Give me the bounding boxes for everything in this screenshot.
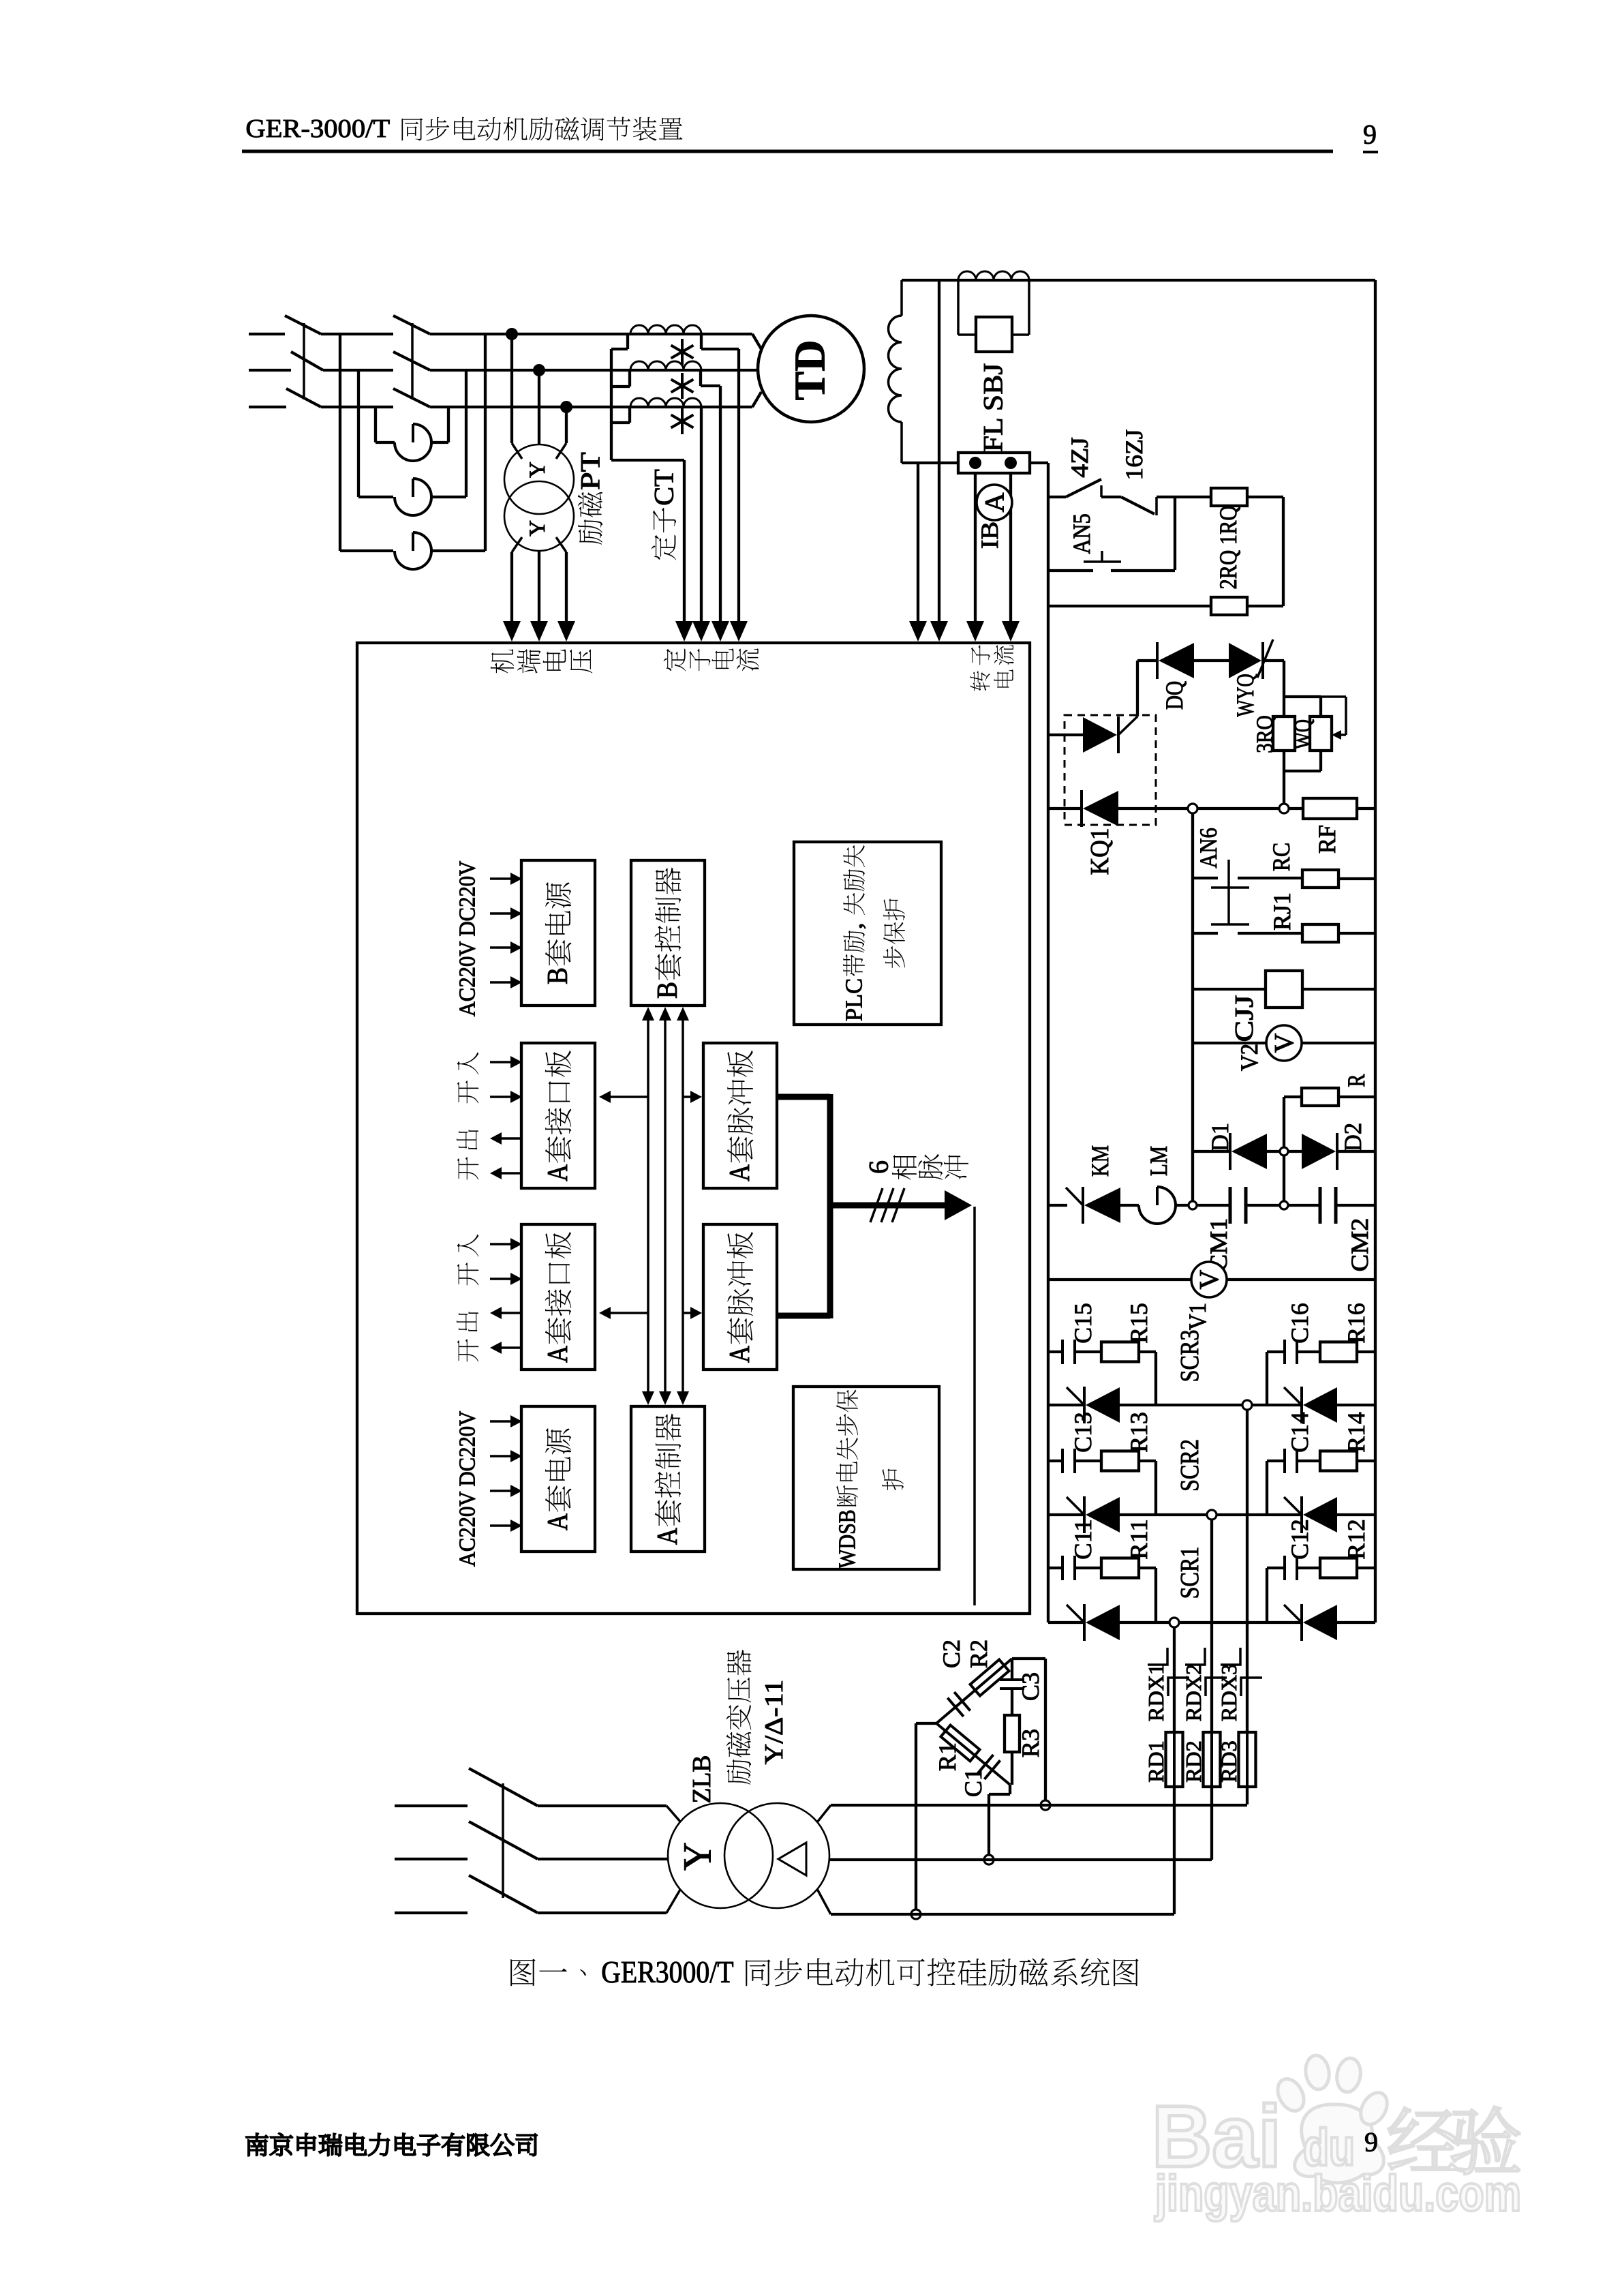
fuse FU1	[395, 442, 431, 461]
CT2 winding humps	[630, 361, 701, 370]
wire SCR3 right	[1337, 1404, 1375, 1406]
snubber R13 drop	[1139, 1460, 1156, 1462]
wire D2 right	[1337, 1150, 1375, 1153]
svg-text:SCR1: SCR1	[1176, 1547, 1204, 1599]
snubber network node X wire	[1012, 1657, 1045, 1660]
thyristor KM wire	[1048, 1204, 1067, 1207]
resistor R12	[1320, 1558, 1357, 1578]
svg-text:GER3000/T: GER3000/T	[601, 1955, 740, 1989]
capacitor CM2	[1319, 1187, 1322, 1224]
diode D1	[1229, 1133, 1231, 1170]
module box B套电源	[521, 860, 595, 1006]
snubber C15 wire left	[1048, 1350, 1062, 1353]
wire SCR3 to node	[1120, 1404, 1242, 1406]
capacitor C13	[1061, 1449, 1064, 1473]
fuse RD3	[1239, 1732, 1256, 1787]
wire SCR1 to node	[1120, 1621, 1169, 1624]
watermark jingyan text	[1389, 2108, 1457, 2170]
svg-text:AN6: AN6	[1195, 828, 1222, 868]
svg-text:B: B	[542, 967, 574, 984]
ZLB secondary lead 3	[817, 1805, 831, 1822]
voltmeter V1	[1191, 1262, 1227, 1297]
ZLB transformer circles	[668, 1803, 773, 1908]
svg-text:3RQ: 3RQ	[1253, 715, 1278, 753]
fuse RD2	[1204, 1732, 1221, 1787]
wire SCR2 to node	[1120, 1513, 1207, 1516]
resistor RF wire	[1288, 807, 1303, 810]
fuse FU3 return wire	[432, 549, 485, 552]
header rule	[242, 150, 1333, 153]
interface board 2 in arrows	[490, 1243, 512, 1245]
svg-text:LM: LM	[1145, 1146, 1172, 1176]
snubber R14 wire right	[1357, 1460, 1375, 1462]
resistor 2RQ	[1211, 597, 1247, 615]
capacitor CM1 wire	[1197, 1204, 1230, 1207]
controller to pulse arrow lower	[683, 1312, 692, 1314]
capacitor C11	[1061, 1556, 1064, 1580]
svg-text:SCR3: SCR3	[1176, 1330, 1204, 1383]
control cabinet box	[357, 643, 1030, 1614]
resistor R13	[1101, 1451, 1139, 1471]
field winding FL leads	[900, 280, 903, 316]
controller to interface arrow upper	[609, 1096, 648, 1098]
svg-text:A: A	[542, 1164, 574, 1181]
wire RC right	[1338, 877, 1375, 880]
phase L3 bus wire	[249, 406, 286, 408]
svg-text:A: A	[724, 1164, 756, 1181]
capacitor CM2 wire	[1288, 1204, 1320, 1207]
resistor R15	[1101, 1342, 1139, 1362]
svg-text:V2: V2	[1236, 1044, 1263, 1071]
svg-text:R11: R11	[1125, 1519, 1152, 1560]
svg-text:GER-3000/T: GER-3000/T	[245, 115, 396, 143]
wire DQ-WYQ	[1194, 659, 1229, 662]
node circle on ZLB phase2	[984, 1855, 994, 1864]
CT1 winding humps	[630, 325, 701, 334]
module box B套控制器	[631, 860, 705, 1006]
svg-text:R16: R16	[1343, 1303, 1370, 1344]
svg-text:,: ,	[841, 916, 868, 929]
snubber C12 wire	[1267, 1567, 1285, 1569]
inductor LM	[1139, 1205, 1176, 1224]
A power supply arrows	[490, 1420, 512, 1423]
capacitor C14	[1283, 1449, 1286, 1473]
module box A套接口板	[521, 1043, 595, 1188]
thyristor SCR3 right gate	[1284, 1387, 1302, 1405]
watermark paw toes	[1272, 2074, 1309, 2115]
svg-text:Y: Y	[675, 1842, 720, 1871]
resistor 2RQ wire right	[1247, 605, 1283, 607]
voltmeter V1 wire	[1048, 1278, 1191, 1281]
CT secondary common bus	[626, 334, 629, 349]
wire drop phase3 to fuse FU1	[374, 407, 377, 442]
snubber C14 wire	[1267, 1460, 1285, 1462]
contactor CJJ box	[1266, 971, 1302, 1008]
wire node to right thyristor SCR3	[1252, 1404, 1302, 1406]
ZLB input phase B	[395, 1858, 468, 1860]
button AN6	[1211, 886, 1249, 889]
svg-text:KM: KM	[1086, 1145, 1114, 1177]
CT3 secondary tap	[700, 407, 703, 621]
diode D2	[1336, 1133, 1338, 1170]
snubber R12 wire right	[1357, 1567, 1375, 1569]
snubber C14 vertical	[1266, 1461, 1268, 1515]
wire node to right thyristor SCR2	[1216, 1513, 1302, 1516]
wire SCR1 right	[1337, 1621, 1375, 1624]
svg-text:C1: C1	[960, 1768, 987, 1797]
pulse output line	[973, 1207, 976, 1605]
svg-text:R14: R14	[1343, 1412, 1370, 1453]
resistor 1RQ	[1211, 488, 1247, 506]
wire CM1 to node	[1246, 1204, 1280, 1207]
thyristor SCR1 left wire	[1048, 1621, 1084, 1624]
label 开入 lower	[457, 1234, 479, 1256]
thyristor SCR3 left gate	[1067, 1387, 1084, 1405]
CT3 polarity star	[681, 408, 684, 434]
CT3 winding humps	[630, 398, 701, 407]
svg-text:WYQ: WYQ	[1231, 674, 1259, 716]
controller to pulse arrow upper	[683, 1096, 692, 1098]
node circle on ZLB phase1	[911, 1909, 921, 1919]
capacitor C12	[1283, 1556, 1286, 1580]
svg-text:C16: C16	[1286, 1303, 1313, 1344]
thyristor SCR1 right gate	[1284, 1605, 1302, 1622]
svg-text:B: B	[652, 982, 684, 999]
module box A套脉冲板	[703, 1224, 777, 1370]
node circle n2	[1279, 804, 1289, 813]
resistor R16	[1320, 1342, 1357, 1362]
svg-text:R13: R13	[1125, 1412, 1152, 1453]
node circle CM row left	[1189, 1201, 1197, 1209]
controller link arrows	[647, 1020, 649, 1392]
node circle n1	[1188, 804, 1197, 813]
label 开出 lower	[457, 1312, 478, 1332]
rheostat WQ branch	[1284, 695, 1321, 698]
thyristor SCR2 right gate	[1284, 1497, 1302, 1515]
node circle SCR3	[1242, 1400, 1252, 1410]
svg-text:C11: C11	[1069, 1519, 1097, 1560]
thyristor SCR2 left	[1083, 1496, 1086, 1533]
ZLB delta symbol	[778, 1843, 806, 1875]
wire D1 to node	[1267, 1150, 1280, 1153]
thyristor SCR3 left wire	[1048, 1404, 1084, 1406]
wire LM to node	[1176, 1204, 1189, 1207]
relay RJ1 branch wire	[1193, 932, 1218, 935]
svg-text:IB: IB	[976, 522, 1003, 549]
resistor R1 / capacitor C1 diagonal	[936, 1723, 1010, 1785]
fuse FU2	[395, 497, 431, 515]
thyristor KM gate	[1066, 1188, 1083, 1205]
thyristor KQ1 wire	[1048, 734, 1083, 736]
rotor current line b	[938, 280, 940, 621]
label 励磁PT	[578, 519, 602, 545]
link clips RDX3	[1221, 1648, 1240, 1665]
svg-text:2RQ 1RQ: 2RQ 1RQ	[1214, 506, 1242, 590]
diode KQ1b wire	[1048, 807, 1082, 810]
pulse arrowhead	[945, 1190, 972, 1220]
svg-text:16ZJ: 16ZJ	[1120, 429, 1148, 481]
svg-text:D1: D1	[1206, 1123, 1234, 1151]
link clips RDX1	[1148, 1648, 1167, 1665]
snubber R15 drop	[1139, 1350, 1156, 1353]
svg-text:RD1: RD1	[1144, 1740, 1168, 1782]
rheostat WQ wiper	[1321, 695, 1346, 698]
CT output arrows to box	[675, 621, 693, 641]
svg-text:C15: C15	[1069, 1303, 1097, 1344]
resistor 1RQ wire	[1175, 496, 1211, 498]
thyristor KM	[1082, 1187, 1084, 1224]
button AN5	[1048, 569, 1093, 572]
node dot phase2	[533, 364, 545, 376]
bridge phase wire RD3	[1246, 1410, 1249, 1732]
thyristor SCR3 left	[1083, 1387, 1086, 1423]
svg-text:RJ1: RJ1	[1268, 892, 1296, 931]
watermark paw palm	[1295, 2104, 1384, 2183]
breaker QF2 blades	[393, 316, 430, 334]
rotor current line d	[1009, 473, 1012, 621]
svg-text:A: A	[979, 492, 1010, 512]
svg-text:C3: C3	[1017, 1672, 1044, 1701]
node circle CM row right	[1280, 1201, 1288, 1209]
node dot phase3	[560, 401, 572, 413]
breaker QF1 blades	[285, 316, 321, 334]
resistor 3RQ	[1273, 716, 1295, 751]
bridge phase wire RD2	[1210, 1520, 1213, 1732]
svg-text:R15: R15	[1125, 1303, 1152, 1344]
module box A套电源	[521, 1406, 595, 1552]
PT transformer circles	[504, 444, 574, 514]
label 开入 upper	[457, 1052, 479, 1074]
label 定子CT	[652, 535, 676, 560]
svg-text:RF: RF	[1313, 825, 1341, 854]
svg-text:CM2: CM2	[1346, 1218, 1373, 1272]
interface board 1 in arrows	[490, 1061, 512, 1063]
module box A套控制器	[631, 1406, 705, 1552]
svg-text:A: A	[542, 1513, 574, 1530]
voltmeter V2 wire	[1193, 1042, 1266, 1044]
rheostat WQ	[1310, 716, 1332, 751]
wire 3RQ down	[1283, 751, 1285, 804]
thyristor SCR1 right	[1300, 1604, 1303, 1641]
svg-text:AN5: AN5	[1068, 513, 1095, 554]
wire drop phase2 to fuse FU2	[357, 370, 360, 497]
ZLB switch linkage	[502, 1783, 504, 1898]
snubber R16 wire right	[1357, 1350, 1375, 1353]
svg-text:RD2: RD2	[1181, 1740, 1206, 1782]
snubber C11 wire left	[1048, 1567, 1062, 1569]
ZLB secondary lead 1	[817, 1889, 831, 1914]
svg-text:Y/Δ-11: Y/Δ-11	[760, 1680, 789, 1765]
svg-text:KQ1: KQ1	[1086, 828, 1114, 875]
svg-text:RDX3: RDX3	[1216, 1664, 1241, 1721]
svg-text:PT: PT	[575, 452, 606, 490]
svg-text:R3: R3	[1017, 1729, 1044, 1757]
module box A套脉冲板	[703, 1043, 777, 1188]
snubber C16 wire	[1267, 1350, 1285, 1353]
resistor 2RQ wire	[1048, 605, 1211, 607]
B power supply arrows	[490, 877, 512, 880]
ammeter A circle	[977, 485, 1012, 520]
svg-text:RDX1: RDX1	[1144, 1664, 1168, 1721]
svg-text:C12: C12	[1286, 1519, 1313, 1560]
svg-text:4ZJ: 4ZJ	[1066, 437, 1093, 478]
thyristor KQ1 gate link	[1118, 716, 1137, 735]
diode KQ1b	[1080, 790, 1083, 827]
interface board 2 out arrows	[500, 1312, 522, 1314]
CT2 secondary tap	[699, 370, 702, 386]
snubber R11 drop	[1139, 1567, 1156, 1569]
thyristor SCR2 left gate	[1067, 1497, 1084, 1515]
breaker QF1 linkage	[303, 323, 305, 399]
node dot phase1	[506, 328, 518, 340]
svg-text:DQ: DQ	[1161, 681, 1188, 710]
inductor LM wire	[1120, 1204, 1139, 1207]
wire node1-node2	[1197, 807, 1280, 810]
resistor RF	[1303, 798, 1357, 819]
svg-text:WQ: WQ	[1291, 719, 1316, 749]
motor TD circle	[758, 316, 864, 422]
capacitor C16	[1283, 1340, 1286, 1364]
shunt IB box	[958, 453, 1030, 473]
corner W wire	[1009, 1785, 1011, 1794]
rotor current line a	[917, 463, 919, 621]
svg-text:ZLB: ZLB	[688, 1755, 716, 1803]
wire CM2 right	[1336, 1204, 1375, 1207]
capacitor CM1	[1229, 1187, 1232, 1224]
label 定子电流	[664, 648, 686, 671]
svg-text:C14: C14	[1286, 1412, 1313, 1453]
svg-text:AC220V DC220V: AC220V DC220V	[455, 860, 480, 1016]
module box A套接口板	[521, 1224, 595, 1370]
svg-text:RDX2: RDX2	[1181, 1664, 1206, 1721]
svg-text:9: 9	[1363, 119, 1377, 150]
CT1 secondary tap	[700, 334, 703, 349]
contactor CJJ wire	[1193, 988, 1266, 991]
wire diode to node1	[1118, 807, 1189, 810]
capacitor C3 / resistor R3 vertical	[1011, 1659, 1013, 1680]
svg-text:A: A	[724, 1345, 756, 1362]
snubber C16 vertical	[1266, 1352, 1268, 1405]
right dc rail	[1374, 280, 1377, 1622]
vertical R to D row	[1283, 1097, 1285, 1201]
svg-text:FL SBJ: FL SBJ	[978, 363, 1009, 453]
button AN6 branch wire	[1193, 877, 1218, 879]
voltmeter V2	[1266, 1025, 1302, 1061]
wire drop phase1 to fuse FU3	[339, 334, 341, 551]
svg-text:TD: TD	[786, 340, 834, 401]
capacitor RC box	[1302, 870, 1338, 888]
fuse FU3	[395, 551, 431, 569]
rheostat WQ bottom wire	[1319, 751, 1322, 771]
label 转子电流	[970, 671, 990, 691]
snubber C13 wire left	[1048, 1460, 1062, 1462]
diode D1 wire	[1193, 1150, 1230, 1153]
label 开出 upper	[457, 1130, 478, 1150]
pulse trunk thick lines	[777, 1094, 830, 1100]
svg-text:PLC: PLC	[841, 978, 868, 1021]
ZLB input phase C	[395, 1912, 468, 1914]
wire IB to contacts	[1030, 462, 1048, 464]
wire RJ1 right	[1338, 932, 1375, 935]
SBJ connection bracket	[957, 280, 960, 335]
suppressor WYQ	[1261, 642, 1264, 679]
svg-text:9: 9	[1364, 2127, 1378, 2158]
node circle on ZLB phase3	[1041, 1800, 1050, 1810]
figure caption	[510, 1959, 536, 1986]
fuse RD1	[1166, 1732, 1183, 1787]
svg-text:Y: Y	[525, 520, 550, 537]
capacitor C2 / resistor R2 diagonal	[936, 1659, 1012, 1723]
rotor current line c	[974, 473, 977, 621]
controller to interface arrow lower	[609, 1312, 648, 1314]
svg-text:A: A	[652, 1527, 684, 1544]
wire node to right thyristor SCR1	[1179, 1621, 1302, 1624]
ZLB secondary lead 2	[829, 1858, 1212, 1861]
PT primary leads	[510, 334, 513, 443]
breaker QF2 linkage	[411, 323, 414, 399]
link clips RDX2	[1185, 1648, 1205, 1665]
fuse FU1 return wire	[431, 441, 448, 444]
relay RJ1 box	[1302, 924, 1338, 942]
svg-text:6: 6	[863, 1160, 894, 1174]
svg-text:Y: Y	[525, 462, 550, 478]
node circle D row	[1280, 1147, 1288, 1155]
wire CJJ right	[1302, 988, 1375, 991]
svg-text:SCR2: SCR2	[1176, 1439, 1204, 1492]
rotor current arrows	[909, 621, 927, 641]
thyristor SCR2 right	[1300, 1496, 1303, 1533]
shunt IB terminals	[969, 457, 981, 469]
diode D2 wire	[1288, 1150, 1302, 1153]
snubber C12 vertical	[1266, 1568, 1268, 1622]
svg-text:D2: D2	[1339, 1123, 1366, 1151]
diode DQ	[1156, 642, 1159, 679]
footer company name	[246, 2134, 268, 2156]
crowbar KQ1 dashed box	[1065, 715, 1156, 825]
svg-text:V: V	[1269, 1033, 1300, 1053]
svg-text:R1: R1	[934, 1742, 961, 1771]
pulse slash marks	[870, 1188, 883, 1222]
resistor R11	[1101, 1558, 1139, 1578]
svg-text:V: V	[1194, 1269, 1225, 1289]
label 励磁变压器	[726, 1759, 751, 1785]
svg-text:CJJ: CJJ	[1230, 995, 1259, 1042]
svg-text:WDSB: WDSB	[834, 1509, 861, 1568]
resistor 1RQ wire right	[1247, 496, 1283, 498]
wire R right	[1338, 1096, 1375, 1098]
label 机端电压	[491, 649, 514, 673]
contact 16ZJ	[1121, 497, 1154, 514]
wire SCR2 right	[1337, 1513, 1375, 1516]
wire contacts junction	[1174, 497, 1176, 570]
svg-text:RC: RC	[1268, 843, 1295, 871]
phase L2 bus wire	[249, 369, 291, 372]
svg-text:A: A	[542, 1345, 574, 1362]
WDSB protection box	[793, 1387, 939, 1569]
svg-text:CT: CT	[649, 469, 679, 506]
wire RF to right rail	[1357, 807, 1375, 810]
thyristor SCR3 right	[1300, 1387, 1303, 1423]
diode DQ wire	[1137, 659, 1157, 662]
SBJ device box	[976, 317, 1012, 352]
thyristor SCR1 left	[1083, 1604, 1086, 1641]
svg-text:jingyan.baidu.com: jingyan.baidu.com	[1154, 2165, 1521, 2222]
interface board 1 out arrows	[500, 1137, 522, 1140]
resistor R14	[1320, 1451, 1357, 1471]
svg-text:V1: V1	[1184, 1303, 1211, 1330]
bridge phase wire RD1	[1173, 1627, 1176, 1732]
corner Y wire	[916, 1722, 936, 1725]
